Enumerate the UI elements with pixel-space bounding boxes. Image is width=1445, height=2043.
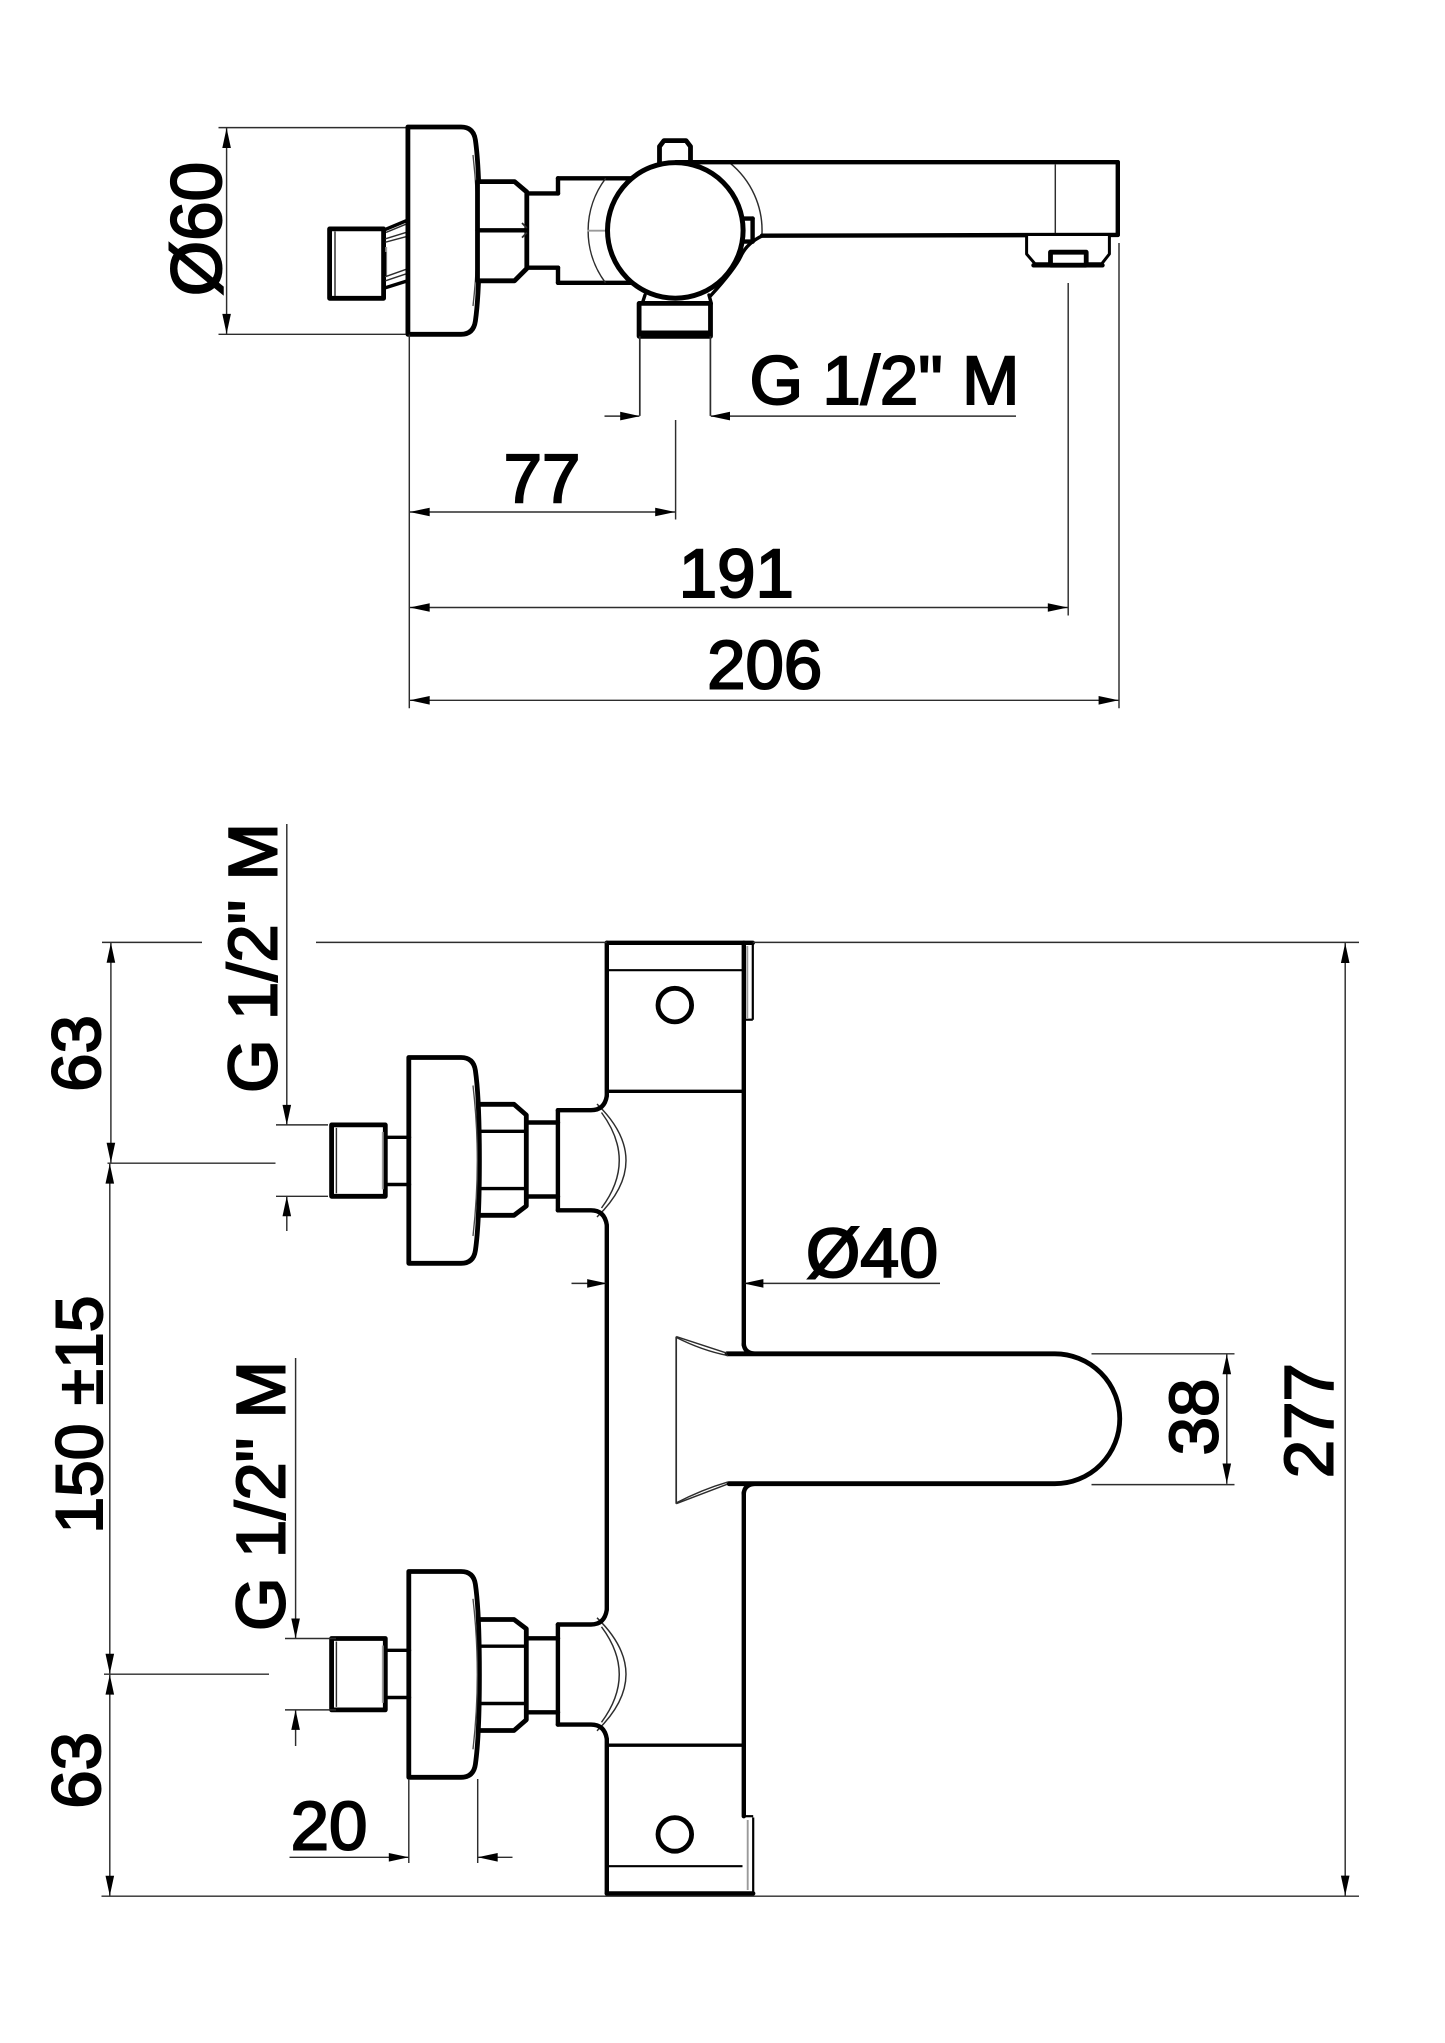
svg-text:Ø60: Ø60	[158, 162, 237, 296]
svg-text:277: 277	[1270, 1363, 1347, 1478]
svg-text:G 1/2" M: G 1/2" M	[750, 342, 1020, 419]
svg-text:20: 20	[291, 1788, 368, 1865]
svg-text:150 ±15: 150 ±15	[42, 1296, 116, 1534]
svg-text:191: 191	[679, 535, 794, 612]
svg-text:77: 77	[504, 440, 581, 517]
svg-text:G 1/2" M: G 1/2" M	[223, 1361, 300, 1631]
svg-text:38: 38	[1156, 1379, 1233, 1456]
svg-text:206: 206	[707, 626, 822, 703]
svg-text:G 1/2" M: G 1/2" M	[215, 823, 292, 1093]
svg-text:Ø40: Ø40	[806, 1214, 938, 1292]
svg-text:63: 63	[38, 1732, 115, 1809]
svg-text:63: 63	[38, 1015, 115, 1092]
